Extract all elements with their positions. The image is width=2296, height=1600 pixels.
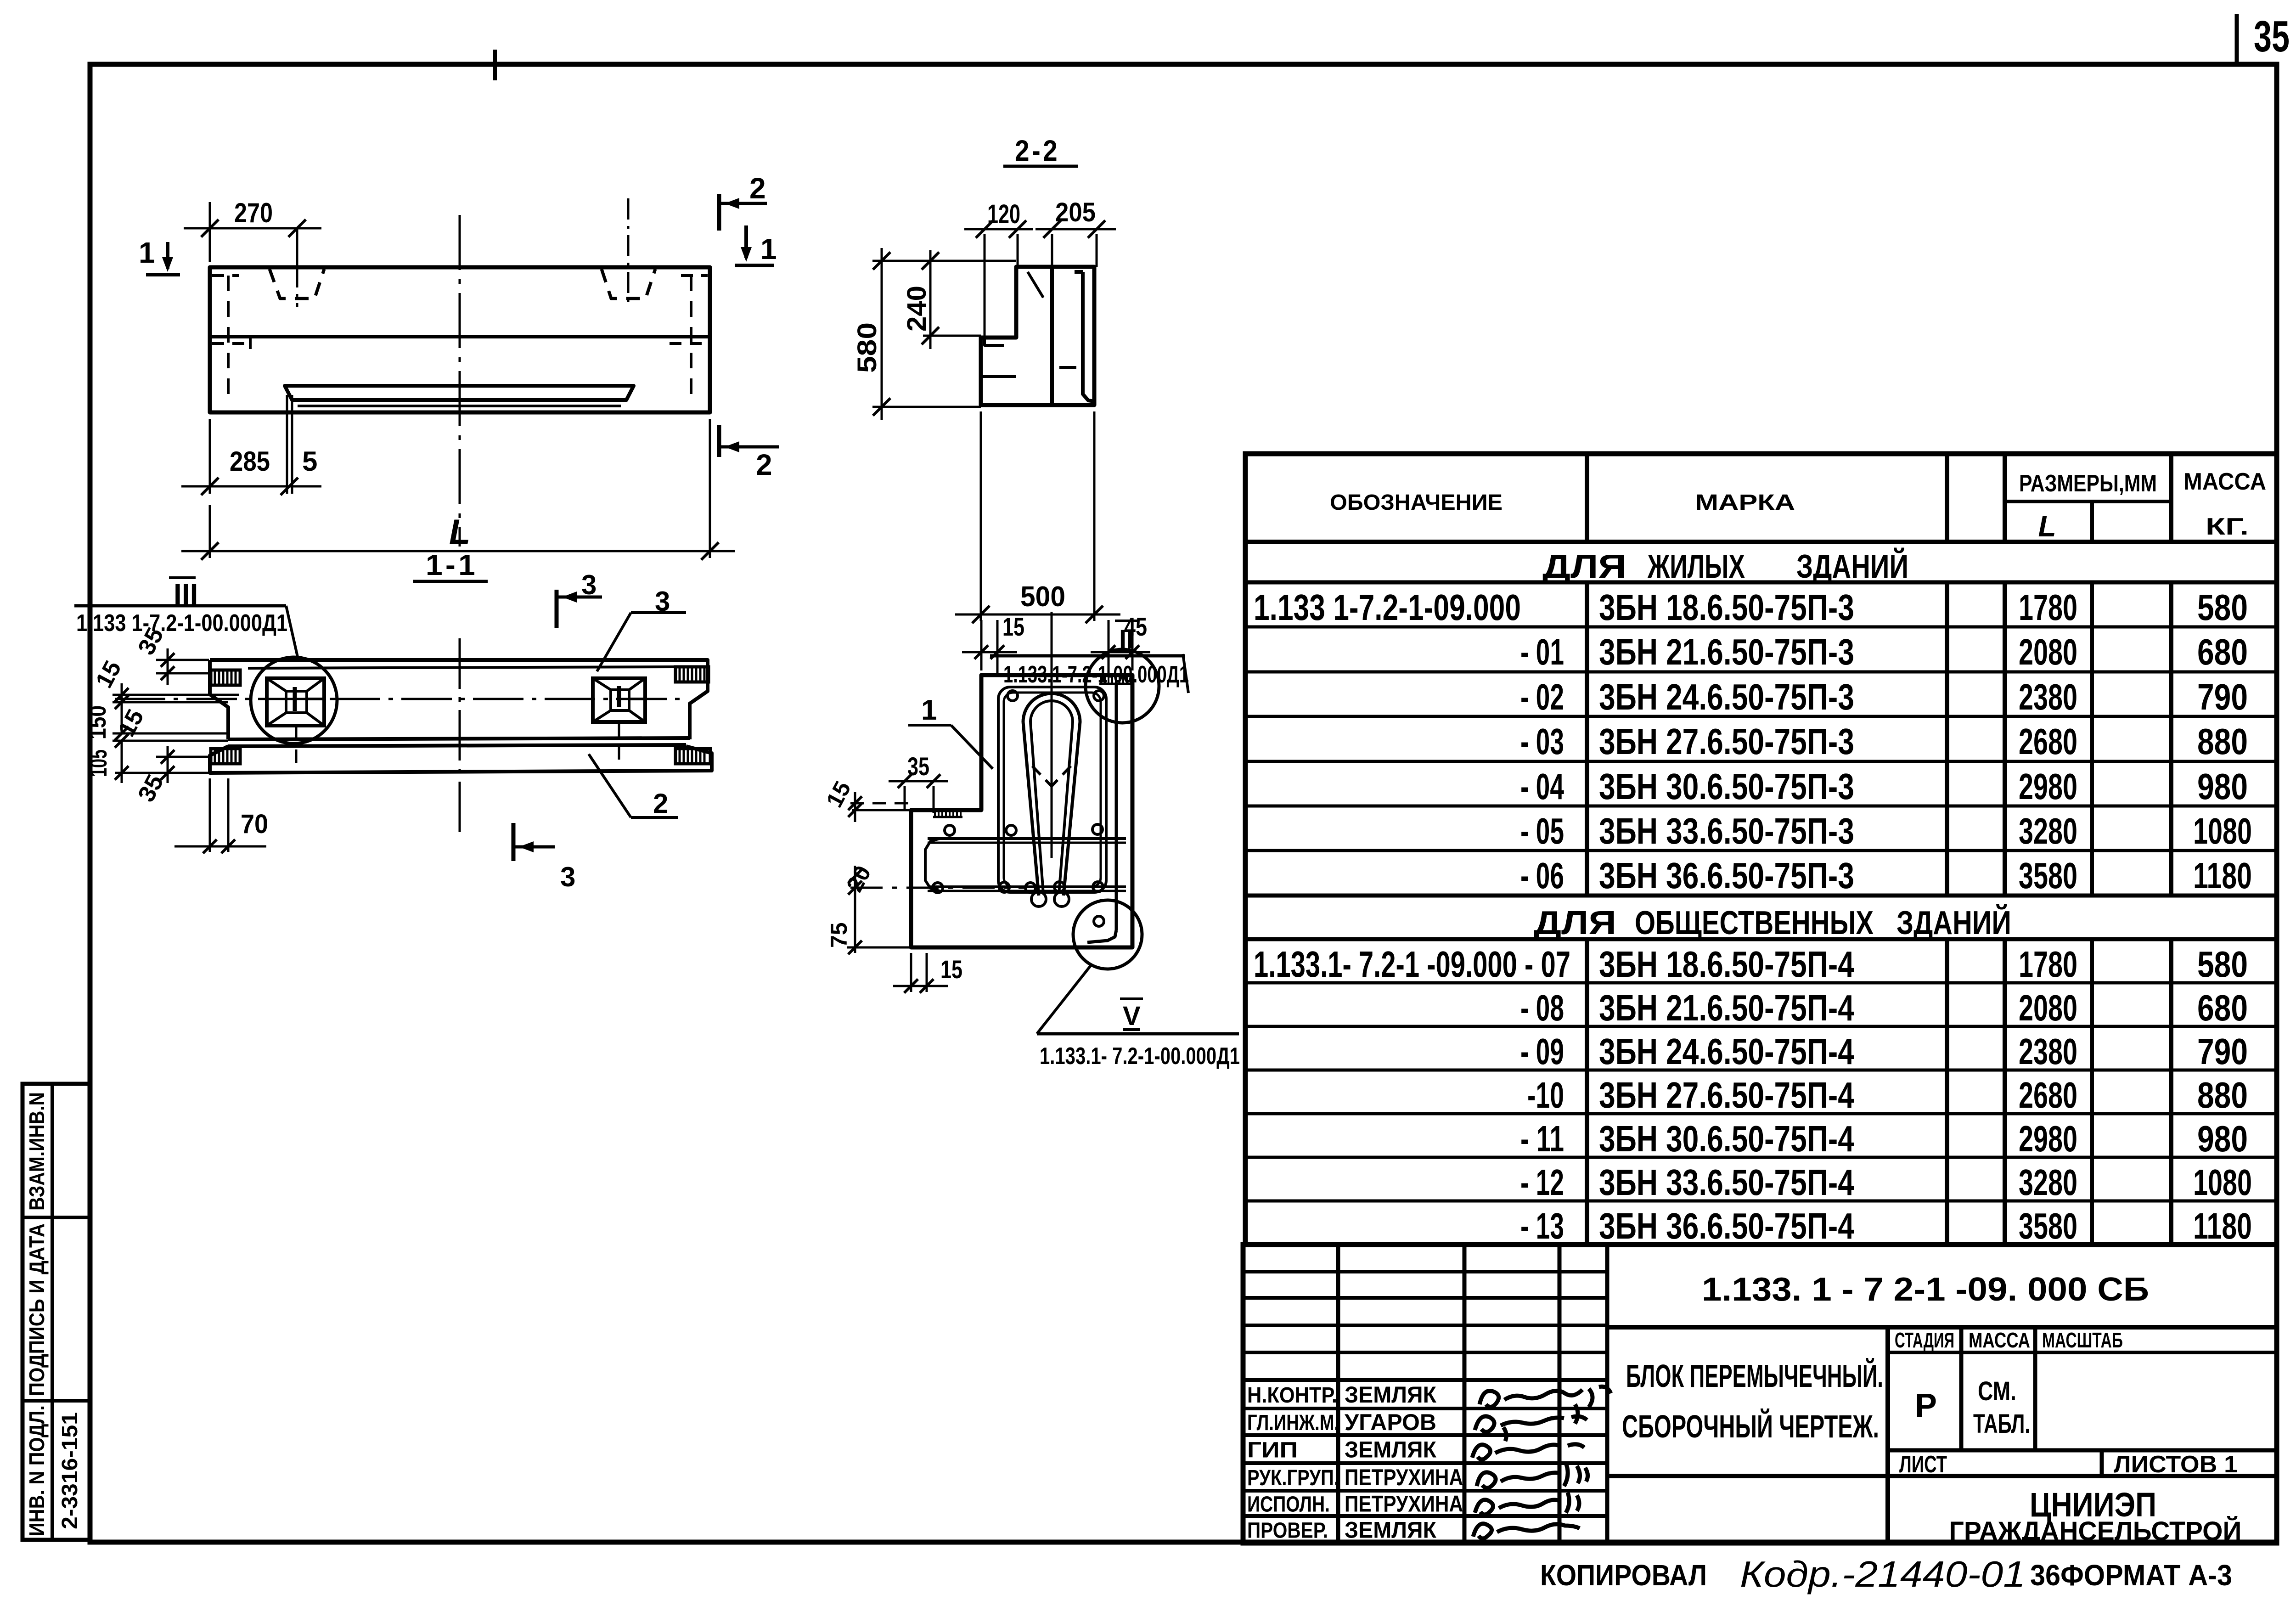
svg-text:3БН 24.6.50-75П-4: 3БН 24.6.50-75П-4	[1599, 1031, 1854, 1072]
section 1-1 left recess detail	[267, 678, 324, 726]
svg-text:БЛОК ПЕРЕМЫЧЕЧНЫЙ.: БЛОК ПЕРЕМЫЧЕЧНЫЙ.	[1626, 1358, 1883, 1394]
title block signature row ИСПОЛН.	[1247, 1491, 1463, 1517]
title block outer border	[1243, 1245, 2277, 1543]
svg-text:ВЗАМ.ИНВ.N: ВЗАМ.ИНВ.N	[25, 1092, 49, 1211]
leader 2 bottom of section 1-1	[589, 754, 678, 819]
section 1-1 left recess hidden line below	[295, 727, 298, 772]
section 1-1 right recess hidden line below	[618, 723, 620, 772]
svg-text:ПЕТРУХИНА: ПЕТРУХИНА	[1345, 1465, 1463, 1490]
dimension 240 of section 2-2	[902, 250, 981, 349]
svg-text:3: 3	[655, 586, 670, 617]
svg-text:3БН 33.6.50-75П-3: 3БН 33.6.50-75П-3	[1599, 811, 1854, 851]
dimension 15 top of rebar section	[962, 612, 1024, 675]
svg-text:980: 980	[2197, 766, 2248, 807]
detail circle II on rebar section	[1086, 649, 1159, 723]
svg-text:ГРАЖДАНСЕЛЬСТРОЙ: ГРАЖДАНСЕЛЬСТРОЙ	[1949, 1516, 2242, 1546]
svg-text:580: 580	[2197, 944, 2248, 985]
svg-text:5: 5	[302, 446, 317, 477]
svg-text:1080: 1080	[2193, 1162, 2252, 1203]
svg-text:ОБОЗНАЧЕНИЕ: ОБОЗНАЧЕНИЕ	[1330, 490, 1503, 515]
section 1-1 outline	[210, 660, 708, 739]
elevation right corner hidden dash	[681, 274, 708, 277]
svg-text:2380: 2380	[2019, 676, 2077, 717]
signature scribble 3	[1472, 1427, 1584, 1459]
left strip row line 1	[23, 1216, 90, 1219]
lifting loop centerline	[1051, 612, 1053, 858]
section 2-2 inner channel line	[1083, 272, 1094, 401]
table row a3 texts	[1520, 676, 2248, 717]
table row b1 texts	[1254, 944, 2248, 985]
signature scribble 1	[1480, 1386, 1611, 1407]
svg-text:СБОРОЧНЫЙ ЧЕРТЕЖ.: СБОРОЧНЫЙ ЧЕРТЕЖ.	[1622, 1408, 1879, 1444]
title block signature row РУК.ГРУП.	[1247, 1465, 1463, 1490]
svg-text:790: 790	[2197, 1031, 2248, 1072]
table column line ОБОЗНАЧЕНИЕ-МАРКА	[1585, 454, 1589, 542]
svg-text:3БН 27.6.50-75П-3: 3БН 27.6.50-75П-3	[1599, 721, 1854, 762]
svg-text:3: 3	[581, 569, 597, 600]
dimension 15 mid of section 1-1	[113, 705, 228, 748]
svg-text:ОБЩЕСТВЕННЫХ: ОБЩЕСТВЕННЫХ	[1635, 905, 1874, 941]
svg-text:РУК.ГРУП.: РУК.ГРУП.	[1247, 1466, 1339, 1490]
svg-text:680: 680	[2197, 631, 2248, 672]
rebar stirrup right column outer	[998, 687, 1106, 892]
elevation recess strip second bottom line	[298, 405, 621, 407]
title block СТАДИЯ header band line	[1888, 1351, 2277, 1354]
dimension 580 of section 2-2	[852, 248, 1016, 420]
svg-text:2980: 2980	[2019, 1118, 2077, 1159]
rebar bottom row centerline dashed	[850, 887, 1026, 889]
svg-text:ПЕТРУХИНА: ПЕТРУХИНА	[1345, 1491, 1463, 1517]
svg-text:150: 150	[84, 705, 111, 739]
rebar section arm embedded plate	[933, 816, 962, 818]
node V label of rebar section	[1037, 964, 1240, 1070]
title block signature row ГЛ.ИНЖ.М.	[1247, 1409, 1436, 1435]
section mark 1 right	[735, 225, 777, 265]
section 1-1 hatched plate top-left	[211, 670, 240, 685]
table row b4 texts	[1527, 1075, 2248, 1115]
svg-text:МАРКА: МАРКА	[1695, 490, 1795, 515]
dimension L overall	[181, 419, 735, 560]
svg-text:3БН 30.6.50-75П-4: 3БН 30.6.50-75П-4	[1599, 1118, 1854, 1159]
svg-text:- 03: - 03	[1520, 721, 1564, 762]
table band line below ДЛЯ ОБЩЕСТВЕННЫХ	[1245, 937, 2277, 941]
page number 35	[2237, 12, 2290, 64]
svg-text:15: 15	[940, 955, 962, 984]
lifting loop chevron dashes	[1032, 766, 1052, 786]
signature scribble 4	[1477, 1463, 1588, 1488]
svg-text:15: 15	[1002, 612, 1024, 641]
svg-text:3БН 21.6.50-75П-4: 3БН 21.6.50-75П-4	[1599, 987, 1854, 1028]
svg-text:1: 1	[921, 694, 937, 726]
dimension 500 of section 2-2	[955, 411, 1120, 623]
table column L-blank divider	[2090, 501, 2094, 542]
svg-text:- 09: - 09	[1520, 1031, 1564, 1072]
svg-text:ЖИЛЫХ: ЖИЛЫХ	[1647, 548, 1745, 585]
svg-text:3БН 18.6.50-75П-3: 3БН 18.6.50-75П-3	[1599, 587, 1854, 628]
table row b5 texts	[1520, 1118, 2248, 1159]
svg-text:3БН 36.6.50-75П-3: 3БН 36.6.50-75П-3	[1599, 855, 1854, 896]
title block ЛИСТ-ЛИСТОВ divider	[2100, 1450, 2104, 1476]
svg-text:285: 285	[230, 446, 270, 477]
dimension 150 of section 1-1	[84, 702, 129, 740]
lifting loop inner	[1030, 701, 1073, 894]
rebar section top-right embedded plate	[1099, 683, 1132, 685]
table outer border	[1245, 454, 2277, 1245]
section mark 3 top of section 1-1	[557, 569, 602, 628]
svg-text:КГ.: КГ.	[2206, 513, 2249, 540]
svg-text:36ФОРМАТ А-3: 36ФОРМАТ А-3	[2030, 1559, 2232, 1592]
svg-text:ЗЕМЛЯК: ЗЕМЛЯК	[1345, 1517, 1436, 1543]
section mark 3 bottom of section 1-1	[513, 823, 575, 892]
svg-text:680: 680	[2197, 987, 2248, 1028]
title block signature row ГИП	[1247, 1437, 1436, 1463]
lifting loop bottom hooks	[1031, 892, 1046, 907]
svg-text:МАССА: МАССА	[2183, 468, 2266, 495]
table row b7 texts	[1520, 1206, 2252, 1246]
section 1-1 hatched plate bottom-left	[211, 749, 240, 764]
svg-text:Р: Р	[1915, 1387, 1937, 1424]
dimension 15 bottom of rebar section	[893, 953, 962, 993]
svg-text:ГЛ.ИНЖ.М.: ГЛ.ИНЖ.М.	[1247, 1411, 1339, 1435]
svg-text:-10: -10	[1527, 1075, 1564, 1115]
svg-text:Н.КОНТР.: Н.КОНТР.	[1247, 1383, 1337, 1408]
table РАЗМЕРЫ sub-header line	[2005, 500, 2171, 503]
elevation vertical centerline	[459, 215, 461, 546]
svg-text:- 13: - 13	[1520, 1206, 1564, 1246]
dimension 35 top of section 1-1	[133, 623, 209, 685]
title block ЛИСТ row bottom line	[1607, 1474, 2277, 1478]
table row a4 texts	[1520, 721, 2248, 762]
svg-text:3БН 24.6.50-75П-3: 3БН 24.6.50-75П-3	[1599, 676, 1854, 717]
dimension 205 of section 2-2	[1035, 197, 1116, 267]
section mark 2 top right	[719, 172, 767, 231]
svg-text:ТАБЛ.: ТАБЛ.	[1973, 1409, 2030, 1439]
section 1-1 vertical centerline	[459, 638, 461, 840]
section 2-2 outline	[981, 267, 1094, 405]
svg-text:3580: 3580	[2019, 1206, 2077, 1246]
elevation right notch centerline	[627, 198, 630, 307]
detail circle V on rebar section	[1073, 900, 1142, 969]
svg-text:КОПИРОВАЛ: КОПИРОВАЛ	[1540, 1559, 1707, 1592]
signature scribble 2	[1475, 1404, 1587, 1432]
leader 1 of rebar section	[908, 694, 993, 769]
svg-text:1-1: 1-1	[426, 548, 478, 581]
svg-text:2980: 2980	[2019, 766, 2077, 807]
svg-text:1080: 1080	[2193, 811, 2252, 851]
table column МАССА	[2169, 454, 2173, 542]
svg-text:1: 1	[760, 232, 777, 265]
table header bottom line	[1245, 540, 2277, 544]
dimension 20 left of rebar section	[841, 862, 876, 899]
svg-text:2680: 2680	[2019, 1075, 2077, 1115]
dimension 15 top of section 1-1	[90, 656, 239, 712]
title block main vertical divider	[1885, 1327, 1890, 1543]
elevation left step hidden dash	[212, 342, 250, 345]
svg-text:ГИП: ГИП	[1247, 1438, 1298, 1463]
fold mark tick on top border	[493, 50, 497, 80]
svg-text:3280: 3280	[2019, 1162, 2077, 1203]
svg-text:МАССА: МАССА	[1969, 1328, 2030, 1352]
section 1-1 detail circle III	[251, 657, 337, 744]
svg-text:3БН 30.6.50-75П-3: 3БН 30.6.50-75П-3	[1599, 766, 1854, 807]
table row b3 texts	[1520, 1031, 2248, 1072]
svg-text:СМ.: СМ.	[1978, 1376, 2016, 1406]
svg-text:2680: 2680	[2019, 721, 2077, 762]
rebar bottom horizontal bar	[928, 885, 1126, 888]
svg-text:2080: 2080	[2019, 987, 2077, 1028]
section 1-1 hatched plate bottom-right	[675, 749, 710, 764]
node II label of section 2-2	[990, 621, 1189, 693]
rebar mid horizontal bar	[928, 837, 1126, 840]
svg-text:1.133.1- 7.2-1 -09.000 - 07: 1.133.1- 7.2-1 -09.000 - 07	[1254, 944, 1570, 985]
elevation right step hidden dash	[670, 342, 708, 345]
dimension 75 left of rebar section	[826, 888, 911, 954]
svg-text:2080: 2080	[2019, 631, 2077, 672]
svg-text:2380: 2380	[2019, 1031, 2077, 1072]
rebar stirrup right column inner	[1004, 693, 1101, 887]
svg-text:L: L	[449, 513, 470, 552]
svg-text:РАЗМЕРЫ,ММ: РАЗМЕРЫ,ММ	[2019, 470, 2157, 497]
dimension 35 of rebar section	[889, 752, 948, 813]
left strip row line 2	[23, 1399, 90, 1403]
svg-text:ЗДАНИЙ: ЗДАНИЙ	[1896, 904, 2011, 941]
svg-text:СТАДИЯ: СТАДИЯ	[1895, 1328, 1954, 1352]
elevation right lifting notch dashed trapezoid	[602, 269, 655, 299]
svg-text:3БН 33.6.50-75П-4: 3БН 33.6.50-75П-4	[1599, 1162, 1854, 1203]
svg-text:1180: 1180	[2193, 1206, 2252, 1246]
svg-text:500: 500	[1020, 581, 1065, 613]
svg-text:580: 580	[852, 322, 882, 373]
svg-text:- 04: - 04	[1520, 766, 1564, 807]
elevation left notch centerline	[296, 230, 298, 307]
svg-text:35: 35	[907, 752, 929, 781]
svg-text:L: L	[2038, 510, 2056, 543]
section 2-2 step notch	[985, 339, 1004, 345]
elevation right hidden edge dashed	[690, 276, 692, 404]
svg-text:Кодр.-21440-01: Кодр.-21440-01	[1740, 1554, 2026, 1594]
svg-text:1780: 1780	[2019, 587, 2077, 628]
svg-text:V: V	[1123, 1001, 1141, 1031]
section 2-2 hidden ledge dash	[983, 375, 1016, 378]
rebar anchor bar right	[1115, 685, 1118, 930]
svg-text:2: 2	[653, 788, 668, 819]
svg-text:2: 2	[756, 448, 772, 481]
signature scribble 6	[1473, 1524, 1580, 1538]
elevation step line	[210, 335, 710, 338]
left strip outer box	[23, 1084, 90, 1540]
svg-text:ПРОВЕР.: ПРОВЕР.	[1247, 1519, 1328, 1543]
section mark 2 bottom right	[719, 425, 779, 481]
svg-text:ИСПОЛН.: ИСПОЛН.	[1247, 1493, 1330, 1517]
table row a6 texts	[1520, 811, 2252, 851]
svg-text:45: 45	[1124, 612, 1147, 641]
title block ЛИСТ row top line	[1888, 1448, 2277, 1453]
svg-text:2-2: 2-2	[1015, 134, 1060, 167]
svg-text:ЗЕМЛЯК: ЗЕМЛЯК	[1345, 1437, 1436, 1463]
section 2-2 top diagonal mark	[1028, 272, 1043, 298]
svg-text:3БН 18.6.50-75П-4: 3БН 18.6.50-75П-4	[1599, 944, 1854, 985]
node III label of section 1-1	[74, 578, 298, 657]
svg-text:ДЛЯ: ДЛЯ	[1542, 548, 1626, 585]
table row b2 texts	[1520, 987, 2248, 1028]
leader 3 top of section 1-1	[597, 586, 686, 671]
signature scribble 5	[1475, 1493, 1579, 1515]
svg-text:- 08: - 08	[1520, 987, 1564, 1028]
svg-text:880: 880	[2197, 721, 2248, 762]
svg-text:790: 790	[2197, 676, 2248, 717]
svg-text:УГАРОВ: УГАРОВ	[1345, 1409, 1436, 1435]
svg-text:1.133 1-7.2-1-09.000: 1.133 1-7.2-1-09.000	[1254, 587, 1521, 628]
dimension 120 of section 2-2	[964, 199, 1033, 338]
svg-text:3: 3	[560, 862, 575, 892]
elevation outline	[210, 267, 710, 412]
section 1-1 mid step lines	[228, 738, 690, 739]
rebar arm stirrup left closure	[925, 839, 940, 891]
svg-text:ЗЕМЛЯК: ЗЕМЛЯК	[1345, 1382, 1436, 1408]
section 2-2 channel top hook	[1075, 270, 1083, 274]
table row lines section 2	[1245, 981, 2277, 985]
svg-text:1180: 1180	[2193, 855, 2252, 896]
elevation left corner hidden dash	[212, 274, 239, 277]
svg-text:580: 580	[2197, 587, 2248, 628]
section 1-1 top chamfer line	[248, 667, 675, 668]
table row a5 texts	[1520, 766, 2248, 807]
svg-text:70: 70	[241, 809, 268, 839]
svg-text:- 11: - 11	[1520, 1118, 1564, 1159]
svg-text:3БН 27.6.50-75П-4: 3БН 27.6.50-75П-4	[1599, 1075, 1854, 1115]
dimension 270	[184, 197, 321, 269]
table row a2 texts	[1520, 631, 2248, 672]
svg-text:35: 35	[2254, 12, 2290, 61]
svg-text:120: 120	[987, 199, 1020, 229]
svg-text:1780: 1780	[2019, 944, 2077, 985]
svg-text:- 01: - 01	[1520, 631, 1564, 672]
dimension 105 of section 1-1	[85, 741, 209, 783]
svg-text:75: 75	[826, 922, 852, 948]
detail V hook inside circle	[1087, 930, 1116, 942]
left strip column divider	[51, 1084, 54, 1540]
elevation left lifting notch dashed trapezoid	[270, 269, 324, 299]
title block stage column lines	[1959, 1327, 1964, 1450]
svg-text:240: 240	[902, 286, 932, 332]
svg-text:ИНВ. N ПОДЛ.: ИНВ. N ПОДЛ.	[25, 1405, 49, 1536]
section 1-1 title	[413, 548, 488, 581]
svg-text:880: 880	[2197, 1075, 2248, 1115]
rebar cross-section circles	[1007, 691, 1018, 701]
table row a7 texts	[1520, 855, 2252, 896]
title block signature columns	[1336, 1245, 1340, 1543]
elevation recess strip top edge	[285, 386, 634, 400]
svg-text:ПОДПИСЬ И ДАТА: ПОДПИСЬ И ДАТА	[25, 1223, 49, 1396]
svg-text:- 12: - 12	[1520, 1162, 1564, 1203]
title block signature row lines	[1243, 1270, 1607, 1273]
svg-text:3БН 36.6.50-75П-4: 3БН 36.6.50-75П-4	[1599, 1206, 1854, 1246]
svg-text:2-3316-151: 2-3316-151	[58, 1412, 82, 1529]
section mark 1 left	[139, 236, 180, 275]
svg-text:2: 2	[749, 172, 766, 205]
dimension 70 of section 1-1	[174, 778, 268, 853]
table column narrow left	[1945, 454, 1949, 542]
section 1-1 horizontal centerline	[115, 698, 684, 700]
table column narrow right	[2003, 454, 2007, 542]
svg-text:1.133. 1 - 7 2-1 -09. 000: 1.133. 1 - 7 2-1 -09. 000 СБ	[1702, 1271, 2149, 1308]
svg-text:- 05: - 05	[1520, 811, 1564, 851]
title block doc row line	[1607, 1325, 2277, 1330]
svg-text:205: 205	[1055, 197, 1096, 227]
section 1-1 right recess detail	[593, 678, 645, 722]
svg-text:ЛИСТ: ЛИСТ	[1899, 1451, 1947, 1478]
svg-text:3БН 21.6.50-75П-3: 3БН 21.6.50-75П-3	[1599, 631, 1854, 672]
svg-text:ДЛЯ: ДЛЯ	[1534, 905, 1616, 941]
table row lines section 1	[1245, 625, 2277, 629]
svg-text:МАСШТАБ: МАСШТАБ	[2042, 1328, 2123, 1352]
elevation left hidden edge dashed	[227, 276, 230, 404]
table row b6 texts	[1520, 1162, 2252, 1203]
dimension 35 bottom of section 1-1	[133, 746, 209, 806]
svg-text:- 02: - 02	[1520, 676, 1564, 717]
table row a1 texts	[1254, 587, 2248, 628]
table band line above ДЛЯ ОБЩЕСТВЕННЫХ	[1245, 894, 2277, 898]
svg-text:ЛИСТОВ 1: ЛИСТОВ 1	[2114, 1451, 2238, 1478]
svg-text:- 06: - 06	[1520, 855, 1564, 896]
svg-text:ЗДАНИЙ: ЗДАНИЙ	[1796, 547, 1908, 585]
svg-text:1.133.1- 7.2-1-00.000Д1: 1.133.1- 7.2-1-00.000Д1	[1040, 1043, 1240, 1070]
title block signature row Н.КОНТР.	[1247, 1382, 1436, 1408]
svg-text:105: 105	[85, 749, 112, 777]
section 2-2 title	[1003, 134, 1078, 167]
section 1-1 hatched plate top-right	[675, 667, 709, 682]
dimension 45 top of rebar section	[1091, 612, 1150, 675]
section 2-2 inner wall line	[1050, 267, 1054, 405]
lifting loop outer	[1023, 693, 1080, 896]
svg-text:3280: 3280	[2019, 811, 2077, 851]
table band line below ДЛЯ ЖИЛЫХ	[1245, 580, 2277, 585]
svg-text:270: 270	[234, 197, 273, 228]
svg-text:980: 980	[2197, 1118, 2248, 1159]
svg-text:1.133 1-7.2-1-00.000Д1: 1.133 1-7.2-1-00.000Д1	[76, 610, 287, 637]
title block signature row ПРОВЕР.	[1247, 1517, 1436, 1543]
svg-text:1: 1	[139, 236, 155, 269]
rebar section outline	[911, 675, 1132, 947]
dimension 285	[181, 395, 321, 495]
dimension 15 left of rebar section	[821, 777, 911, 822]
svg-text:3580: 3580	[2019, 855, 2077, 896]
